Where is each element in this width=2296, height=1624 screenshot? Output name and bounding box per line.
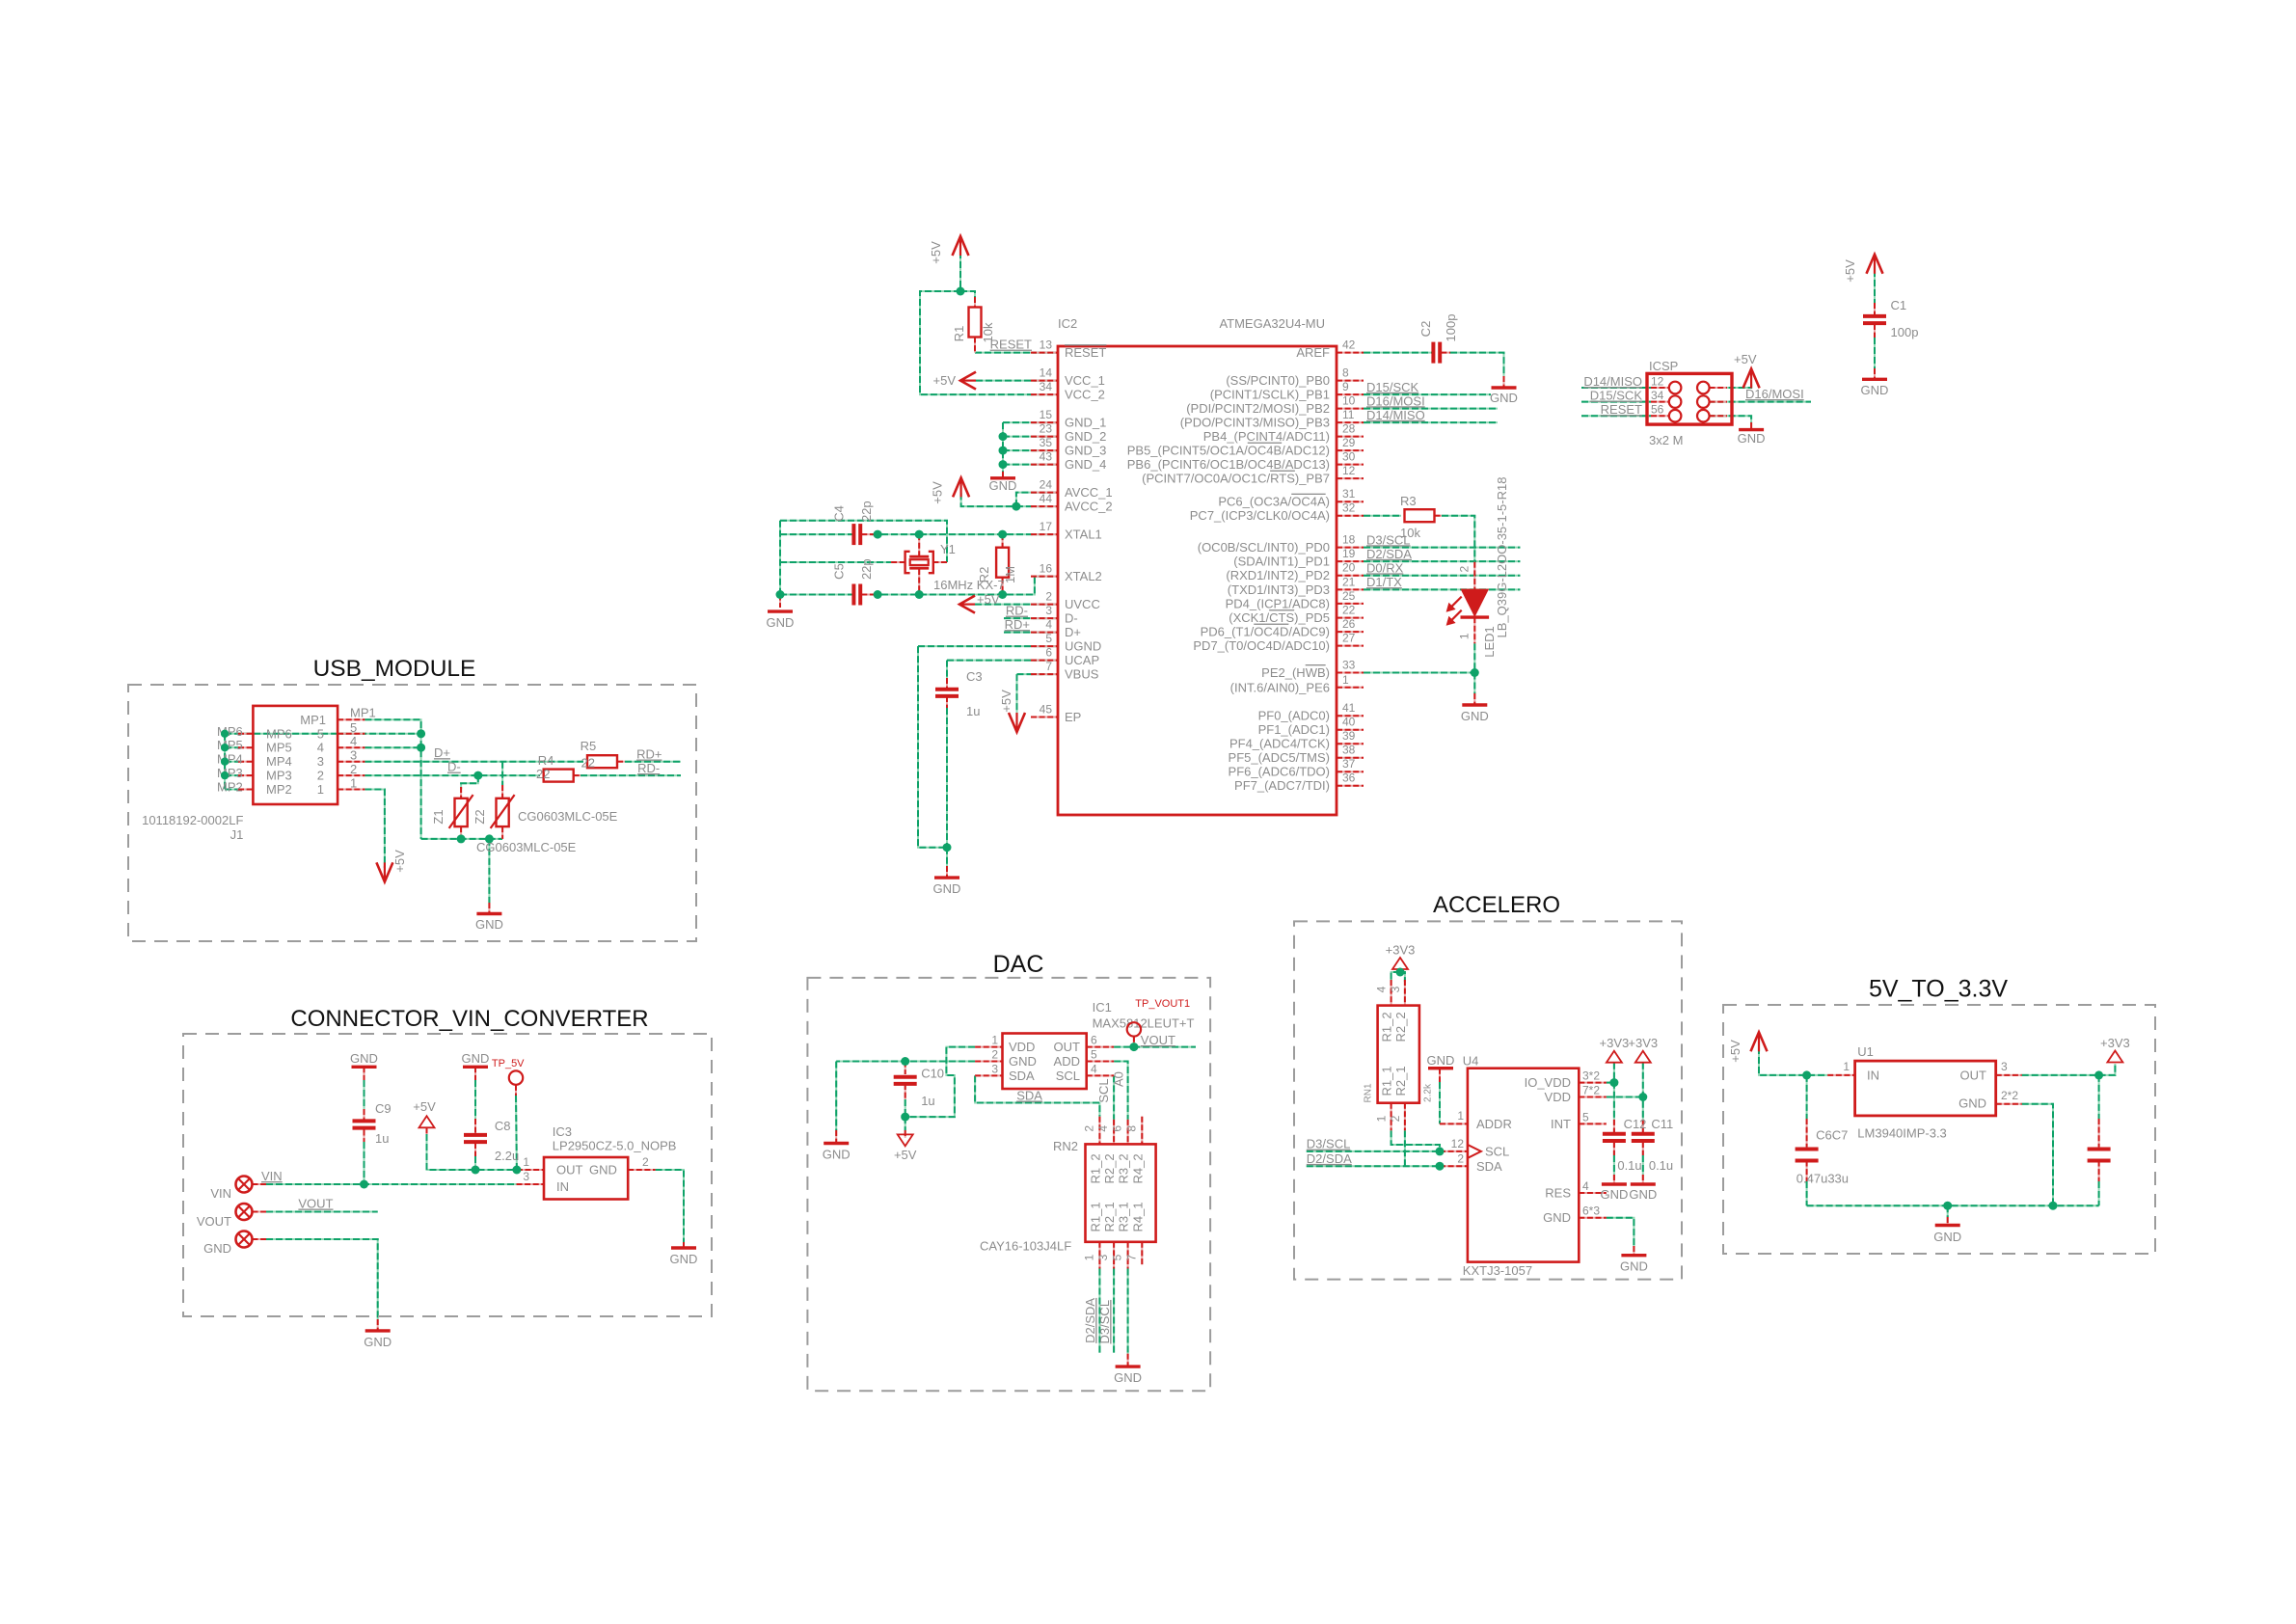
svg-text:2: 2: [642, 1155, 649, 1169]
svg-text:C9: C9: [375, 1101, 392, 1116]
svg-text:C6C7: C6C7: [1816, 1128, 1848, 1143]
svg-text:ADD: ADD: [1054, 1054, 1080, 1069]
svg-text:PF5_(ADC5/TMS): PF5_(ADC5/TMS): [1229, 750, 1330, 765]
svg-text:31: 31: [1342, 487, 1356, 501]
svg-text:IN: IN: [556, 1179, 569, 1194]
svg-text:RESET: RESET: [1601, 402, 1642, 417]
svg-text:2.2u: 2.2u: [495, 1149, 519, 1163]
svg-text:2: 2: [317, 769, 324, 783]
svg-text:C11: C11: [1651, 1117, 1673, 1131]
svg-text:PB4_(PCINT4/ADC11): PB4_(PCINT4/ADC11): [1203, 429, 1330, 444]
svg-text:7*2: 7*2: [1582, 1084, 1600, 1097]
svg-text:SDA: SDA: [1009, 1069, 1035, 1083]
svg-text:C4: C4: [832, 505, 847, 522]
svg-text:+5V: +5V: [1843, 259, 1857, 283]
svg-text:D2/SDA: D2/SDA: [1366, 547, 1412, 561]
svg-text:GND: GND: [1958, 1096, 1986, 1111]
svg-text:R2: R2: [977, 567, 991, 583]
svg-text:12: 12: [1651, 375, 1664, 389]
svg-text:6: 6: [1111, 1125, 1124, 1132]
svg-text:GND: GND: [823, 1148, 851, 1162]
svg-text:D-: D-: [1065, 611, 1078, 626]
svg-text:GND_2: GND_2: [1065, 429, 1106, 444]
svg-text:(SDA/INT1)_PD1: (SDA/INT1)_PD1: [1233, 555, 1330, 569]
svg-text:IC3: IC3: [553, 1124, 572, 1139]
svg-text:+3V3: +3V3: [1386, 943, 1416, 958]
svg-text:2.2k: 2.2k: [1423, 1083, 1434, 1102]
svg-text:MP1: MP1: [300, 713, 326, 727]
svg-text:U1: U1: [1857, 1044, 1874, 1059]
svg-text:100p: 100p: [1891, 325, 1919, 339]
svg-text:6: 6: [1045, 646, 1052, 660]
svg-text:GND: GND: [1629, 1187, 1657, 1202]
svg-text:4: 4: [1096, 1125, 1110, 1132]
svg-text:1: 1: [1457, 1109, 1464, 1123]
svg-text:AVCC_1: AVCC_1: [1065, 485, 1113, 500]
svg-text:(PCINT1/SCLK)_PB1: (PCINT1/SCLK)_PB1: [1210, 388, 1330, 402]
svg-text:XTAL2: XTAL2: [1065, 569, 1102, 583]
svg-text:100p: 100p: [1444, 314, 1458, 342]
svg-text:10: 10: [1342, 394, 1356, 408]
svg-text:(TXD1/INT3)_PD3: (TXD1/INT3)_PD3: [1228, 582, 1330, 597]
svg-text:3: 3: [991, 1062, 998, 1075]
svg-text:R4: R4: [538, 753, 554, 768]
svg-text:ADDR: ADDR: [1476, 1117, 1512, 1131]
svg-text:1: 1: [1375, 1115, 1389, 1122]
svg-text:+5V: +5V: [977, 592, 1000, 607]
svg-text:4: 4: [1375, 986, 1389, 992]
svg-text:RESET: RESET: [990, 338, 1032, 352]
svg-text:GND: GND: [1933, 1230, 1961, 1244]
svg-text:4: 4: [317, 741, 324, 755]
svg-text:AVCC_2: AVCC_2: [1065, 500, 1113, 514]
svg-text:(RXD1/INT2)_PD2: (RXD1/INT2)_PD2: [1226, 568, 1330, 582]
svg-text:2: 2: [991, 1048, 998, 1062]
svg-text:1: 1: [523, 1155, 529, 1169]
svg-text:IC1: IC1: [1093, 1000, 1112, 1015]
svg-text:R2_1: R2_1: [1102, 1202, 1117, 1232]
svg-text:37: 37: [1342, 757, 1356, 771]
svg-text:RES: RES: [1545, 1186, 1571, 1201]
svg-text:1: 1: [1342, 673, 1349, 687]
svg-text:RD+: RD+: [636, 747, 662, 762]
svg-text:GND: GND: [989, 478, 1017, 493]
svg-text:35: 35: [1040, 436, 1053, 449]
svg-text:GND: GND: [767, 615, 795, 630]
svg-text:PF0_(ADC0): PF0_(ADC0): [1258, 709, 1330, 723]
svg-text:30: 30: [1342, 450, 1356, 464]
svg-text:Z1: Z1: [431, 809, 446, 824]
svg-text:RN2: RN2: [1053, 1139, 1078, 1153]
svg-text:(OC0B/SCL/INT0)_PD0: (OC0B/SCL/INT0)_PD0: [1198, 540, 1330, 555]
svg-text:+5V: +5V: [1734, 352, 1757, 366]
svg-text:(SS/PCINT0)_PB0: (SS/PCINT0)_PB0: [1226, 373, 1330, 388]
svg-text:GND: GND: [670, 1252, 698, 1266]
svg-text:4: 4: [1091, 1062, 1097, 1075]
svg-text:12: 12: [1342, 464, 1356, 477]
svg-text:(PCINT7/OC0A/OC1C/RTS)_PB7: (PCINT7/OC0A/OC1C/RTS)_PB7: [1142, 472, 1330, 486]
svg-text:RN1: RN1: [1364, 1083, 1374, 1102]
svg-text:2: 2: [350, 762, 357, 776]
svg-text:VBUS: VBUS: [1065, 667, 1099, 682]
svg-text:2: 2: [1457, 1152, 1464, 1166]
svg-text:MP3: MP3: [217, 766, 243, 780]
svg-text:3: 3: [350, 748, 357, 763]
svg-text:GND: GND: [1861, 383, 1889, 397]
svg-text:1: 1: [1843, 1060, 1850, 1073]
svg-text:CG0603MLC-05E: CG0603MLC-05E: [476, 840, 577, 854]
svg-text:CAY16-103J4LF: CAY16-103J4LF: [980, 1239, 1071, 1254]
svg-text:R3_2: R3_2: [1117, 1153, 1131, 1183]
svg-text:40: 40: [1342, 716, 1356, 729]
svg-text:4: 4: [350, 734, 357, 748]
svg-text:D-: D-: [447, 760, 461, 774]
svg-text:0.47u33u: 0.47u33u: [1796, 1172, 1849, 1186]
svg-text:D14/MISO: D14/MISO: [1366, 408, 1425, 422]
svg-text:RD+: RD+: [1005, 617, 1030, 632]
svg-text:3: 3: [2001, 1060, 2008, 1073]
svg-text:38: 38: [1342, 744, 1356, 757]
svg-text:3: 3: [523, 1170, 529, 1183]
svg-text:19: 19: [1342, 547, 1356, 560]
svg-text:PC7_(ICP3/CLK0/OC4A): PC7_(ICP3/CLK0/OC4A): [1190, 508, 1330, 523]
svg-text:R5: R5: [581, 739, 597, 753]
svg-text:12: 12: [1451, 1137, 1465, 1150]
svg-text:GND: GND: [1600, 1187, 1628, 1202]
svg-text:1u: 1u: [966, 704, 980, 718]
svg-text:USB_MODULE: USB_MODULE: [313, 656, 476, 682]
svg-text:(XCK1/CTS)_PD5: (XCK1/CTS)_PD5: [1229, 610, 1330, 625]
svg-text:0.1u: 0.1u: [1649, 1158, 1673, 1173]
svg-text:3: 3: [1045, 604, 1052, 617]
svg-text:+5V: +5V: [413, 1099, 436, 1114]
svg-text:GND: GND: [589, 1163, 617, 1177]
svg-text:A0: A0: [1111, 1071, 1125, 1087]
svg-text:8: 8: [1342, 366, 1349, 380]
svg-text:PF6_(ADC6/TDO): PF6_(ADC6/TDO): [1229, 765, 1330, 779]
svg-text:5: 5: [1091, 1048, 1097, 1062]
svg-text:MP4: MP4: [266, 754, 292, 769]
svg-text:D16/MOSI: D16/MOSI: [1745, 387, 1804, 401]
svg-text:20: 20: [1342, 561, 1356, 575]
svg-text:MP2: MP2: [217, 780, 243, 795]
svg-text:U4: U4: [1463, 1054, 1479, 1069]
svg-text:44: 44: [1040, 492, 1053, 505]
svg-text:10k: 10k: [1400, 526, 1420, 540]
svg-text:56: 56: [1651, 403, 1664, 417]
svg-text:INT: INT: [1551, 1117, 1571, 1131]
svg-text:GND: GND: [364, 1335, 392, 1349]
svg-text:5: 5: [1045, 632, 1052, 645]
svg-text:GND: GND: [1620, 1259, 1648, 1274]
svg-text:CG0603MLC-05E: CG0603MLC-05E: [518, 809, 618, 824]
svg-text:3: 3: [1096, 1254, 1110, 1260]
svg-text:D3/SCL: D3/SCL: [1097, 1300, 1112, 1344]
svg-text:GND: GND: [1114, 1370, 1142, 1385]
svg-text:28: 28: [1342, 422, 1356, 436]
svg-text:VIN: VIN: [210, 1186, 231, 1201]
svg-text:34: 34: [1040, 380, 1053, 393]
svg-text:1u: 1u: [375, 1131, 389, 1146]
svg-text:D14/MISO: D14/MISO: [1583, 374, 1642, 389]
svg-text:22: 22: [536, 767, 550, 781]
svg-text:MP2: MP2: [266, 782, 292, 797]
svg-text:+5V: +5V: [933, 373, 957, 388]
svg-text:PD4_(ICP1/ADC8): PD4_(ICP1/ADC8): [1226, 596, 1330, 610]
svg-text:GND: GND: [203, 1241, 231, 1256]
svg-text:3x2 M: 3x2 M: [1649, 433, 1683, 447]
svg-text:XTAL1: XTAL1: [1065, 528, 1102, 542]
svg-text:SCL: SCL: [1056, 1069, 1080, 1083]
svg-text:RD-: RD-: [637, 761, 660, 775]
svg-text:26: 26: [1342, 617, 1356, 631]
svg-text:TP_5V: TP_5V: [492, 1058, 525, 1069]
svg-text:2: 2: [1082, 1125, 1095, 1132]
svg-text:15: 15: [1040, 408, 1053, 421]
svg-text:CONNECTOR_VIN_CONVERTER: CONNECTOR_VIN_CONVERTER: [290, 1006, 648, 1032]
svg-text:1: 1: [1458, 633, 1472, 639]
svg-text:22p: 22p: [859, 558, 874, 580]
svg-text:2: 2: [1045, 590, 1052, 604]
svg-text:PF1_(ADC1): PF1_(ADC1): [1258, 722, 1330, 737]
svg-text:34: 34: [1651, 389, 1664, 402]
svg-text:R2_1: R2_1: [1393, 1066, 1408, 1096]
svg-text:C8: C8: [495, 1119, 511, 1133]
svg-text:PB6_(PCINT6/OC1B/OC4B/ADC13): PB6_(PCINT6/OC1B/OC4B/ADC13): [1127, 457, 1330, 472]
svg-text:4: 4: [1582, 1179, 1589, 1193]
svg-text:VOUT: VOUT: [298, 1197, 333, 1211]
svg-text:2*2: 2*2: [2001, 1089, 2018, 1102]
svg-text:GND: GND: [350, 1051, 378, 1066]
svg-text:23: 23: [1040, 422, 1053, 436]
svg-text:33: 33: [1342, 659, 1356, 672]
svg-text:R2_2: R2_2: [1102, 1153, 1117, 1183]
svg-text:R2_2: R2_2: [1393, 1012, 1408, 1042]
svg-text:+3V3: +3V3: [1600, 1036, 1630, 1050]
svg-text:D+: D+: [434, 745, 450, 760]
svg-text:41: 41: [1342, 701, 1356, 715]
svg-text:36: 36: [1342, 771, 1356, 785]
svg-text:AREF: AREF: [1296, 345, 1330, 360]
svg-text:D2/SDA: D2/SDA: [1083, 1298, 1097, 1343]
svg-text:GND: GND: [475, 917, 503, 932]
svg-text:1: 1: [350, 776, 357, 791]
svg-text:14: 14: [1040, 366, 1053, 380]
svg-text:MP5: MP5: [217, 738, 243, 752]
svg-text:VCC_2: VCC_2: [1065, 388, 1105, 402]
svg-text:PE2_(HWB): PE2_(HWB): [1261, 665, 1330, 680]
svg-text:LP2950CZ-5.0_NOPB: LP2950CZ-5.0_NOPB: [553, 1138, 677, 1152]
svg-text:GND_4: GND_4: [1065, 457, 1106, 472]
svg-text:RD-: RD-: [1006, 604, 1028, 618]
svg-text:2: 2: [1458, 566, 1472, 573]
svg-text:R3_1: R3_1: [1117, 1202, 1131, 1232]
svg-text:22p: 22p: [859, 501, 874, 522]
svg-text:C5: C5: [832, 563, 847, 580]
svg-text:32: 32: [1342, 501, 1356, 515]
svg-text:25: 25: [1342, 589, 1356, 603]
svg-text:+5V: +5V: [929, 241, 943, 264]
svg-text:D0/RX: D0/RX: [1366, 560, 1404, 575]
svg-text:24: 24: [1040, 478, 1053, 492]
svg-text:OUT: OUT: [556, 1163, 583, 1177]
svg-text:PC6_(OC3A/OC4A): PC6_(OC3A/OC4A): [1218, 495, 1330, 509]
svg-text:GND: GND: [462, 1051, 490, 1066]
svg-text:UCAP: UCAP: [1065, 653, 1099, 667]
svg-text:5: 5: [1582, 1110, 1589, 1123]
svg-text:VIN: VIN: [261, 1169, 283, 1183]
svg-text:16MHz KX-7: 16MHz KX-7: [933, 578, 1005, 592]
svg-text:D+: D+: [1065, 625, 1081, 639]
svg-text:(PDI/PCINT2/MOSI)_PB2: (PDI/PCINT2/MOSI)_PB2: [1186, 401, 1330, 416]
svg-text:SDA: SDA: [1476, 1159, 1502, 1174]
svg-text:D15/SCK: D15/SCK: [1366, 380, 1419, 394]
svg-text:5V_TO_3.3V: 5V_TO_3.3V: [1869, 976, 2008, 1003]
svg-text:IO_VDD: IO_VDD: [1525, 1075, 1571, 1090]
svg-text:1: 1: [1082, 1254, 1095, 1260]
svg-text:1: 1: [991, 1034, 998, 1047]
svg-text:IC2: IC2: [1058, 316, 1077, 331]
svg-text:1M: 1M: [1003, 566, 1017, 583]
svg-text:MP1: MP1: [350, 706, 376, 720]
svg-text:VOUT: VOUT: [197, 1214, 231, 1229]
svg-text:4: 4: [1045, 618, 1052, 632]
svg-text:RESET: RESET: [1065, 345, 1106, 360]
svg-text:VDD: VDD: [1009, 1040, 1035, 1054]
svg-text:2: 2: [1389, 1115, 1402, 1122]
svg-text:MP6: MP6: [266, 726, 292, 741]
svg-text:+5V: +5V: [392, 850, 407, 873]
svg-text:VDD: VDD: [1545, 1090, 1571, 1104]
svg-text:GND: GND: [1543, 1210, 1571, 1225]
svg-text:PD7_(T0/OC4D/ADC10): PD7_(T0/OC4D/ADC10): [1193, 638, 1330, 653]
svg-text:KXTJ3-1057: KXTJ3-1057: [1463, 1263, 1532, 1278]
svg-text:6*3: 6*3: [1582, 1204, 1600, 1218]
svg-text:(INT.6/AIN0)_PE6: (INT.6/AIN0)_PE6: [1230, 680, 1330, 694]
svg-text:10118192-0002LF: 10118192-0002LF: [142, 813, 243, 827]
svg-text:C12: C12: [1624, 1117, 1647, 1131]
svg-text:MP4: MP4: [217, 752, 243, 767]
svg-text:5: 5: [1111, 1254, 1124, 1260]
svg-text:+5V: +5V: [894, 1148, 917, 1162]
svg-text:UVCC: UVCC: [1065, 597, 1100, 611]
svg-text:GND: GND: [1738, 431, 1766, 446]
svg-text:27: 27: [1342, 632, 1356, 645]
svg-text:42: 42: [1342, 338, 1356, 352]
svg-text:ATMEGA32U4-MU: ATMEGA32U4-MU: [1219, 316, 1325, 331]
svg-text:C1: C1: [1891, 298, 1907, 312]
svg-text:29: 29: [1342, 436, 1356, 449]
svg-text:+5V: +5V: [931, 481, 945, 504]
svg-text:17: 17: [1040, 520, 1053, 533]
svg-text:IN: IN: [1867, 1069, 1879, 1083]
svg-text:PF4_(ADC4/TCK): PF4_(ADC4/TCK): [1229, 737, 1330, 751]
svg-text:+5V: +5V: [1728, 1040, 1742, 1063]
svg-text:PF7_(ADC7/TDI): PF7_(ADC7/TDI): [1234, 778, 1330, 793]
svg-text:+5V: +5V: [999, 690, 1013, 713]
svg-text:18: 18: [1342, 533, 1356, 547]
svg-text:6: 6: [1091, 1034, 1097, 1047]
svg-text:R1_2: R1_2: [1088, 1153, 1102, 1183]
svg-text:Z2: Z2: [473, 809, 487, 824]
svg-text:R3: R3: [1400, 494, 1417, 508]
svg-text:OUT: OUT: [1054, 1040, 1081, 1054]
svg-text:LM3940IMP-3.3: LM3940IMP-3.3: [1857, 1126, 1947, 1141]
svg-text:3: 3: [317, 754, 324, 769]
svg-text:GND: GND: [933, 881, 961, 896]
svg-text:GND_1: GND_1: [1065, 416, 1106, 430]
svg-text:8: 8: [1124, 1125, 1138, 1132]
svg-text:22: 22: [1342, 604, 1356, 617]
svg-text:3: 3: [1389, 986, 1402, 992]
svg-text:3*2: 3*2: [1582, 1069, 1600, 1083]
svg-text:C10: C10: [921, 1067, 944, 1081]
svg-text:J1: J1: [230, 827, 244, 842]
svg-text:R1_1: R1_1: [1380, 1066, 1394, 1096]
svg-text:16: 16: [1040, 562, 1053, 576]
svg-text:EP: EP: [1065, 710, 1081, 724]
svg-text:OUT: OUT: [1960, 1069, 1987, 1083]
svg-text:22: 22: [581, 756, 595, 771]
svg-text:TP_VOUT1: TP_VOUT1: [1135, 998, 1190, 1010]
svg-text:+3V3: +3V3: [1628, 1036, 1658, 1050]
svg-text:GND: GND: [1009, 1054, 1037, 1069]
svg-text:GND: GND: [1461, 709, 1489, 723]
svg-text:Y1: Y1: [940, 542, 956, 556]
svg-text:1u: 1u: [921, 1094, 934, 1108]
svg-text:5: 5: [350, 720, 357, 735]
svg-text:SCL: SCL: [1096, 1078, 1111, 1102]
svg-text:SDA: SDA: [1016, 1089, 1042, 1103]
svg-text:D1/TX: D1/TX: [1366, 575, 1402, 589]
svg-text:C2: C2: [1418, 321, 1433, 338]
svg-text:13: 13: [1040, 338, 1053, 352]
svg-text:ACCELERO: ACCELERO: [1433, 892, 1560, 918]
svg-text:C3: C3: [966, 669, 983, 684]
svg-text:LB_Q39G-L2OO-35-1-5-R18: LB_Q39G-L2OO-35-1-5-R18: [1495, 477, 1509, 638]
svg-text:MP6: MP6: [217, 724, 243, 739]
svg-text:(PDO/PCINT3/MISO)_PB3: (PDO/PCINT3/MISO)_PB3: [1180, 416, 1330, 430]
svg-text:7: 7: [1124, 1254, 1138, 1260]
svg-text:45: 45: [1040, 703, 1053, 717]
svg-text:PB5_(PCINT5/OC1A/OC4B/ADC12): PB5_(PCINT5/OC1A/OC4B/ADC12): [1127, 444, 1330, 458]
svg-text:VCC_1: VCC_1: [1065, 373, 1105, 388]
svg-text:+3V3: +3V3: [2100, 1036, 2130, 1050]
svg-text:MP5: MP5: [266, 741, 292, 755]
svg-text:GND: GND: [1490, 391, 1518, 405]
svg-text:ICSP: ICSP: [1649, 359, 1678, 373]
svg-text:11: 11: [1342, 408, 1355, 421]
svg-text:1: 1: [317, 782, 324, 797]
svg-text:UGND: UGND: [1065, 639, 1101, 654]
svg-text:R1_1: R1_1: [1088, 1202, 1102, 1232]
svg-text:21: 21: [1342, 575, 1356, 588]
svg-text:GND: GND: [1427, 1053, 1455, 1068]
svg-text:R1_2: R1_2: [1380, 1012, 1394, 1042]
svg-text:9: 9: [1342, 380, 1349, 393]
svg-text:7: 7: [1045, 660, 1052, 673]
svg-text:VOUT: VOUT: [1141, 1033, 1175, 1047]
svg-text:5: 5: [317, 726, 324, 741]
svg-text:0.1u: 0.1u: [1617, 1158, 1641, 1173]
svg-text:D2/SDA: D2/SDA: [1307, 1151, 1352, 1166]
svg-text:SCL: SCL: [1485, 1145, 1509, 1159]
svg-text:D16/MOSI: D16/MOSI: [1366, 393, 1425, 408]
svg-text:DAC: DAC: [993, 951, 1044, 978]
svg-text:MP3: MP3: [266, 769, 292, 783]
svg-text:43: 43: [1040, 450, 1053, 464]
svg-text:39: 39: [1342, 729, 1356, 743]
